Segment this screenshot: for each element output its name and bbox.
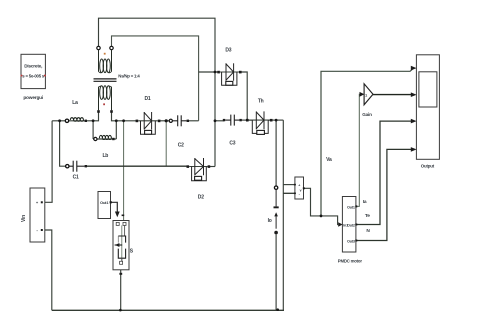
svg-text:Gain: Gain (362, 112, 372, 117)
wire D3 anode from inner loop vertical (199, 71, 219, 73)
wire output node to VM plus and down to ground rail (282, 120, 284, 310)
svg-text:Io: Io (268, 218, 272, 224)
node at D1 output tap (165, 119, 168, 122)
node at Th output / Io branch (275, 119, 278, 122)
svg-text:Out1: Out1 (100, 200, 109, 205)
wire D2 cathode to outer vertical (209, 166, 215, 168)
svg-text:Discrete,: Discrete, (24, 63, 42, 68)
wire C1 right to D2 anode (86, 165, 188, 167)
wire Th cathode to output node (268, 119, 283, 121)
svg-text:Ia: Ia (363, 199, 367, 205)
svg-text:Th: Th (258, 99, 264, 105)
capacitor C3 (223, 115, 242, 126)
node at MOSFET drain tap (122, 119, 125, 122)
svg-text:Vin: Vin (21, 215, 27, 222)
powergui block (21, 54, 46, 101)
svg-text:powergui: powergui (23, 95, 43, 101)
DC source Vin (21, 188, 45, 242)
diode D1 (136, 112, 161, 134)
svg-text:Out1: Out1 (347, 205, 355, 209)
svg-text:D2: D2 (198, 194, 204, 200)
wire transformer bottom-right port down to mid line through D1 C2 (112, 113, 137, 121)
wire D1 cathode to C2 (159, 120, 171, 122)
svg-text:D3: D3 (225, 48, 231, 54)
node Io return on ground rail (276, 308, 279, 311)
svg-text:Va: Va (326, 157, 332, 163)
svg-text:s = 5e-005 s: s = 5e-005 s (22, 74, 45, 79)
wire Lb branch right rise (115, 121, 117, 139)
wire ground rail (52, 309, 284, 311)
node at outer vertical / C3 line (214, 119, 217, 122)
motor Out1 port nub (355, 205, 357, 207)
wire C3 to Th anode (241, 119, 253, 121)
svg-text:Te: Te (365, 213, 370, 219)
capacitor C2 (169, 115, 189, 126)
wire N signal from motor Out3 to Output display input 4 (356, 149, 412, 240)
inductor La (65, 118, 87, 123)
wire Ia signal from motor Out1 up to Gain input (356, 94, 360, 206)
wire Lb branch left drop (92, 121, 94, 139)
wire C2 right to inner loop vertical (188, 120, 199, 122)
svg-text:PMDC motor: PMDC motor (338, 259, 363, 264)
node at Lb return (115, 119, 118, 122)
gain block (360, 84, 374, 105)
svg-text:D1: D1 (145, 96, 151, 102)
svg-text:Lb: Lb (102, 153, 108, 159)
svg-text:Ns/Np = 1:4: Ns/Np = 1:4 (118, 74, 140, 79)
node at C1 feed tap (58, 119, 61, 122)
svg-text:N: N (366, 228, 370, 234)
inductor Lb (94, 135, 115, 140)
transformer (linear, Ns/Np) (94, 46, 117, 113)
wire VM minus input (283, 192, 295, 194)
svg-text:Output: Output (421, 164, 435, 169)
wire outer top loop: transformer top-left up, across, down to D2 output (99, 18, 216, 166)
svg-text:+: + (298, 184, 300, 188)
svg-text:Out2: Out2 (347, 223, 355, 227)
voltage measurement VM (294, 177, 304, 199)
MOSFET S (113, 212, 129, 275)
motor Out2 port nub (355, 224, 357, 226)
svg-text:Out3: Out3 (347, 239, 355, 243)
node at Va signal tap (320, 215, 323, 218)
wire Te signal from motor Out2 to Output display input 3 (356, 121, 412, 224)
wire output node down through Io sensor to ground rail (275, 120, 277, 186)
wire Va signal tap up to Output display input 1 (321, 68, 414, 216)
svg-text:S: S (130, 249, 134, 255)
svg-text:C3: C3 (229, 140, 235, 146)
PMDC motor subsystem (338, 197, 356, 253)
current sensor Io (274, 186, 279, 234)
wire input line: left rail to La to transformer bottom-left port (52, 113, 98, 121)
wire VM output signal down and to motor In1 (304, 188, 339, 224)
wire Out1 pulse to MOSFET gate (111, 202, 118, 211)
VM output port nub (303, 187, 305, 189)
node at La / Lb split (92, 119, 95, 122)
wire inner top loop: transformer top-right up, across, down to C2 right node (112, 36, 199, 121)
diode D3 (217, 63, 241, 85)
diode D2 (187, 158, 211, 181)
wire MOSFET drain vertical from mid line (123, 121, 125, 221)
wire MOSFET source to ground rail (120, 270, 122, 311)
wire Gain output to Output display input 2 (373, 94, 412, 96)
wire D1 output down to C1-D2 line (165, 121, 167, 166)
wire Lb branch line (93, 138, 116, 140)
wire Io sensor bottom to ground rail (275, 234, 277, 310)
capacitor C1 (66, 161, 87, 172)
wire Vin minus down to ground rail (42, 230, 52, 310)
node at D3 cathode / Th anode (246, 119, 249, 122)
wire Vin plus up the left rail (42, 121, 52, 203)
svg-text:C1: C1 (73, 174, 79, 180)
svg-text:La: La (72, 100, 78, 106)
thyristor Th (246, 111, 273, 134)
node at D3 anode on outer vertical (214, 71, 217, 74)
svg-text:C2: C2 (178, 142, 184, 148)
wire node to C3 (215, 120, 224, 122)
node MOSFET source on ground rail (119, 309, 122, 312)
display block Output (411, 55, 440, 160)
wire VM plus input (283, 184, 295, 186)
pulse source block Out1 (98, 192, 112, 219)
motor Out3 port nub (355, 240, 357, 242)
wire C1 line: left rail to C1 to D2 anode (60, 121, 68, 166)
wire D3 cathode down to Th anode node (240, 72, 247, 120)
